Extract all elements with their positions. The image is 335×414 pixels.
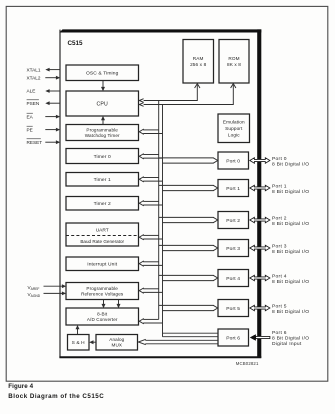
svg-text:RESET: RESET [27,140,43,145]
block CPU [66,91,139,116]
signal PE [27,126,61,132]
svg-text:PSEN: PSEN [27,101,40,106]
block Analog MUX [96,335,138,351]
block Programmable Watchdog Timer [66,125,139,141]
port 5 block [218,300,249,317]
signal RESET [27,139,61,145]
svg-text:Port 6: Port 6 [226,335,240,341]
svg-text:Port 5: Port 5 [272,303,287,309]
signal PSEN [27,100,60,106]
svg-text:Support: Support [225,126,243,131]
port 2 external arrow [250,217,270,223]
wire bus to Port 4 [159,275,218,280]
block Timer 2 [66,197,139,211]
svg-text:Baud Rate Generator: Baud Rate Generator [80,239,124,244]
svg-text:Timer 0: Timer 0 [94,154,111,160]
wire Analog MUX to S and H [89,340,96,344]
port 5 external arrow [250,305,270,311]
svg-text:UART: UART [96,227,109,233]
port 0 external arrow [250,158,270,164]
svg-text:8K x 8: 8K x 8 [227,62,241,67]
svg-text:Reference Voltages: Reference Voltages [81,291,124,296]
wire bus to Interrupt Unit [139,261,162,266]
port 4 label [272,273,309,285]
wire bus to Port 2 [159,217,218,222]
svg-text:Port 3: Port 3 [272,243,287,249]
svg-text:8 Bit Digital I/O: 8 Bit Digital I/O [272,249,309,255]
port 4 block [218,270,249,287]
port 3 external arrow [250,245,270,251]
svg-text:8-Bit: 8-Bit [97,312,108,317]
svg-text:MUX: MUX [112,343,123,348]
block OSC and Timing [66,65,139,81]
block Programmable Reference Voltages [66,283,139,300]
svg-text:Digital Input: Digital Input [272,341,302,347]
bus rail right [162,105,164,337]
wire S and H to A/D Converter [76,325,80,335]
svg-text:8 Bit Digital I/O: 8 Bit Digital I/O [272,279,309,285]
svg-text:MCB02821: MCB02821 [236,361,259,366]
wire bus to Timer 2 [139,201,162,206]
svg-text:Port 3: Port 3 [226,246,240,252]
svg-text:8 Bit Digital I/O: 8 Bit Digital I/O [272,189,309,195]
wire bus to CPU and ROM [139,84,236,107]
port 0 label [272,156,309,168]
wire bus to A/D Converter [139,319,162,324]
svg-text:Port 6: Port 6 [272,330,287,336]
svg-text:OSC & Timing: OSC & Timing [86,71,119,77]
signal VAREF [28,284,67,291]
port 5 label [272,303,309,315]
port 0 block [218,152,249,169]
wire Watchdog to CPU [101,116,105,125]
block Emulation Support Logic [218,114,250,143]
svg-text:S & H: S & H [72,340,86,346]
block UART with Baud Rate Generator [66,223,139,246]
signal VAGND [28,292,67,299]
svg-text:Port 2: Port 2 [272,215,287,221]
svg-text:Port 5: Port 5 [226,306,240,312]
svg-text:PE: PE [27,127,33,132]
svg-text:Port 1: Port 1 [226,186,240,192]
bus rail left [158,101,160,320]
signal ALE [27,89,60,94]
wire bus to UART [139,235,162,240]
port 1 external arrow [250,185,270,191]
port 3 label [272,243,309,255]
svg-text:256 x 8: 256 x 8 [190,62,206,67]
svg-text:8 Bit Digital I/O: 8 Bit Digital I/O [272,335,309,341]
port 1 label [272,183,309,195]
wire bus to Watchdog Timer [139,129,162,134]
svg-text:Analog: Analog [109,337,124,342]
svg-text:RAM: RAM [193,56,204,61]
port 2 block [218,212,249,229]
wire bus to Reference Voltages [139,288,162,293]
svg-text:Figure 4: Figure 4 [8,383,33,390]
signal EA [27,113,61,119]
svg-text:XTAL1: XTAL1 [27,67,41,72]
svg-text:8 Bit Digital I/O: 8 Bit Digital I/O [272,221,309,227]
port 4 external arrow [250,275,270,281]
svg-text:8 Bit Digital I/O: 8 Bit Digital I/O [272,309,309,315]
svg-text:EA: EA [27,114,34,119]
svg-text:CPU: CPU [97,101,108,107]
svg-text:Programmable: Programmable [86,128,118,133]
wire bus to Port 3 [159,245,218,250]
block 8-Bit A/D Converter [66,308,139,325]
svg-text:A/D Converter: A/D Converter [87,317,118,322]
signal XTAL2 [27,75,61,80]
port 1 block [218,180,249,197]
wire OSC to CPU [101,81,105,92]
block ROM 8Kx8 [219,40,249,84]
svg-text:C515: C515 [68,40,84,47]
wire bus to Port 6 [163,333,219,337]
wire bus to Timer 1 [139,177,162,182]
port 2 label [272,215,309,227]
svg-text:Port 4: Port 4 [226,276,240,282]
main block frame C515 [59,29,261,358]
svg-text:Programmable: Programmable [86,286,118,291]
wire bus to CPU and RAM [139,84,200,103]
port 6 block [218,329,249,346]
svg-text:Emulation: Emulation [223,119,245,124]
svg-text:Port 1: Port 1 [272,183,287,189]
signal XTAL1 [27,67,60,72]
port 3 block [218,240,249,257]
block S and H [68,335,90,351]
wire bus to Port 5 [159,305,218,310]
svg-text:8 Bit Digital I/O: 8 Bit Digital I/O [272,161,309,167]
svg-text:Port 2: Port 2 [226,218,240,224]
wire bus to Port 0 [159,158,218,163]
svg-text:Port 0: Port 0 [226,158,240,164]
block Timer 1 [66,173,139,187]
svg-text:Block Diagram of the C515C: Block Diagram of the C515C [8,393,104,400]
svg-text:Port 0: Port 0 [272,156,287,162]
svg-text:Timer 2: Timer 2 [94,201,111,207]
block RAM 256x8 [183,40,214,84]
svg-text:XTAL2: XTAL2 [27,75,41,80]
block Timer 0 [66,149,139,164]
svg-text:Interrupt Unit: Interrupt Unit [87,262,117,268]
svg-text:Timer 1: Timer 1 [94,177,111,183]
block Interrupt Unit [66,257,139,271]
svg-text:Watchdog Timer: Watchdog Timer [85,133,120,138]
wire Port 6 to Analog MUX [138,339,218,344]
wire Reference Voltages to A/D 1 [102,300,106,309]
port 6 label [272,330,309,347]
port 6 external arrow [250,334,270,341]
svg-text:Port 4: Port 4 [272,273,287,279]
svg-text:ROM: ROM [228,56,239,61]
svg-text:ALE: ALE [27,89,36,94]
wire bus to Timer 0 [139,154,162,159]
wire bus to Port 1 [159,185,218,190]
svg-text:Logic: Logic [228,133,240,138]
wire Reference Voltages to A/D 2 [117,300,121,309]
